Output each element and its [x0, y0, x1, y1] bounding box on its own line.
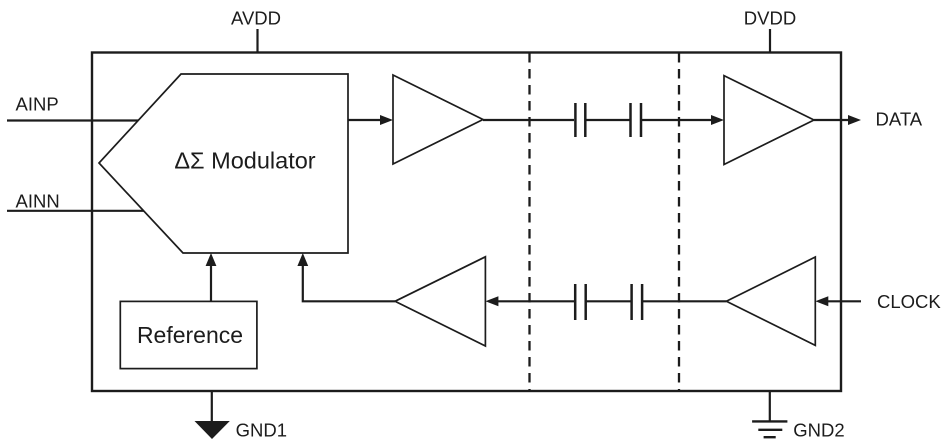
isolation barrier dashed line 1: [528, 53, 530, 390]
wire buffer A1 to isolation caps: [483, 119, 574, 121]
svg-text:Reference: Reference: [137, 322, 243, 348]
wire buffer A4 to modulator clock input: [303, 265, 395, 301]
svg-text:ΔΣ Modulator: ΔΣ Modulator: [174, 148, 315, 174]
wire caps to buffer A2: [641, 119, 712, 121]
buffer A4 (clock buffer, points left): [395, 257, 485, 346]
svg-text:AVDD: AVDD: [231, 8, 281, 29]
wire buffer A3 to isolation caps: [642, 300, 726, 302]
wire DATA output: [814, 119, 849, 121]
wire AINN input: [7, 210, 144, 212]
wire caps to buffer A4: [498, 300, 575, 302]
wire between top caps: [585, 119, 630, 121]
ground GND2 (earth symbol): [752, 421, 787, 437]
buffer A1 (modulator output driver): [393, 75, 483, 164]
isolation barrier dashed line 2: [678, 53, 680, 390]
svg-text:DATA: DATA: [876, 109, 923, 130]
svg-text:GND1: GND1: [236, 419, 287, 440]
buffer A3 (clock receiver, points left): [726, 257, 815, 345]
svg-text:CLOCK: CLOCK: [877, 291, 941, 312]
buffer A2 (DATA output driver): [724, 76, 814, 165]
svg-text:GND2: GND2: [793, 420, 844, 441]
svg-text:DVDD: DVDD: [744, 8, 796, 29]
wire CLOCK input: [827, 300, 861, 302]
pin DVDD tick: [769, 29, 771, 53]
isolation capacitor C2 (top right): [631, 103, 642, 137]
wire modulator output to buffer A1: [348, 119, 381, 121]
delta-sigma modulator U1: [99, 74, 348, 253]
svg-text:AINN: AINN: [16, 191, 60, 212]
wire reference to modulator: [210, 265, 212, 301]
isolation capacitor C3 (bottom left): [575, 284, 586, 320]
wire AINP input: [7, 119, 140, 121]
wire GND1: [211, 391, 213, 422]
svg-text:AINP: AINP: [16, 94, 59, 115]
wire between bottom caps: [586, 300, 632, 302]
wire GND2: [769, 391, 771, 421]
reference block: [120, 301, 257, 368]
chip boundary box: [92, 53, 841, 392]
isolation capacitor C1 (top left): [575, 103, 585, 137]
pin AVDD tick: [256, 29, 258, 53]
ground GND1 (power ground arrow): [195, 421, 230, 439]
isolation capacitor C4 (bottom right): [632, 284, 643, 320]
